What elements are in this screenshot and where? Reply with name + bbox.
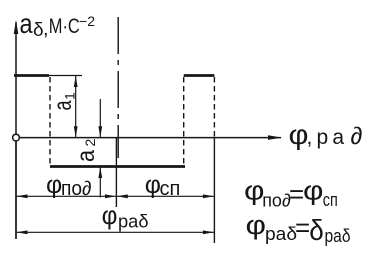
dimension line phi_rab [16, 231, 214, 233]
dim1 middle right arrowhead [117, 194, 128, 198]
svg-text:−2: −2 [79, 13, 95, 29]
dimension line phi_pod / phi_sp [16, 195, 214, 197]
extension line middle [115, 138, 117, 207]
svg-text:сп: сп [160, 178, 181, 200]
y-axis arrowhead [14, 20, 19, 34]
extension line left (below origin) [15, 141, 17, 239]
a2 dimension line upper tail [99, 99, 101, 137]
acceleration curve: top-left positive step [14, 74, 49, 77]
svg-text:раδ: раδ [325, 226, 351, 246]
svg-text:φ: φ [46, 171, 62, 199]
dashed drop line right-step left side (x=183.7) [183, 77, 185, 165]
a1 top arrowhead [74, 76, 78, 87]
svg-text:φ: φ [289, 119, 309, 150]
dashed drop line right-step right side (x=214.4) [213, 77, 215, 138]
a2 upper arrowhead (points down at axis) [98, 126, 102, 137]
svg-text:,ра: ,ра [307, 126, 349, 149]
svg-text:δ: δ [33, 20, 44, 41]
a1 dimension line [75, 76, 77, 137]
svg-text:сп: сп [323, 190, 338, 210]
dim2 right arrowhead [203, 230, 214, 234]
x-axis phi [16, 137, 281, 139]
dim1 middle left arrowhead [105, 194, 116, 198]
svg-text:φ: φ [246, 210, 267, 240]
svg-text:φ: φ [102, 200, 118, 230]
acceleration curve: top-right positive step [184, 74, 215, 77]
svg-text:δ: δ [309, 215, 324, 247]
svg-text:М·С: М·С [49, 14, 80, 38]
svg-text:φ: φ [303, 176, 324, 206]
svg-text:=: = [289, 179, 304, 209]
dim1 left arrowhead [17, 194, 28, 198]
dash-dot centerline [117, 17, 119, 158]
extension line right [213, 138, 215, 243]
a1 dimension extension line [49, 75, 82, 77]
y-axis a [15, 22, 17, 239]
dim1 right arrowhead [203, 194, 214, 198]
origin circle node [13, 134, 20, 141]
x-axis arrowhead [268, 135, 282, 140]
svg-text:,: , [43, 18, 49, 40]
svg-text:∂: ∂ [351, 123, 363, 150]
svg-text:раδ: раδ [118, 210, 149, 231]
svg-text:по∂: по∂ [262, 190, 291, 210]
dim2 left arrowhead [17, 230, 28, 234]
a2 dimension line lower tail [99, 167, 101, 198]
svg-text:a: a [20, 8, 33, 39]
svg-text:=: = [295, 213, 310, 243]
dashed drop line left (x=50) [49, 77, 51, 165]
svg-text:по∂: по∂ [61, 178, 92, 200]
acceleration curve: negative step [50, 165, 185, 168]
svg-text:раδ: раδ [265, 224, 297, 244]
a1 bottom arrowhead [74, 126, 78, 137]
a2 lower arrowhead (points up at curve) [98, 167, 102, 178]
